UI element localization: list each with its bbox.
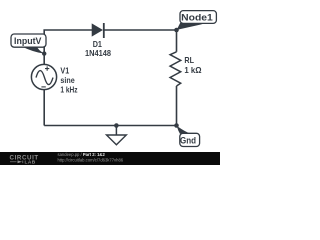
svg-text:LAB: LAB bbox=[25, 160, 36, 165]
label V1 sine 1 kHz bbox=[60, 65, 77, 94]
node Node1 flag bbox=[177, 11, 217, 30]
junction dot at Node1 corner bbox=[174, 28, 179, 33]
node InputV flag bbox=[11, 34, 46, 56]
node Gnd flag bbox=[177, 126, 200, 147]
wire right rail upper: Node1 corner to resistor top bbox=[176, 30, 178, 52]
svg-text:sandeep.pp / Part 2: 1&2: sandeep.pp / Part 2: 1&2 bbox=[58, 152, 106, 157]
svg-text:V1: V1 bbox=[60, 65, 69, 75]
wire top-left: from InputV rail corner to diode anode bbox=[44, 30, 92, 65]
junction dot at ground tap bbox=[114, 123, 119, 128]
svg-text:sine: sine bbox=[60, 75, 75, 85]
wire left rail lower: source bottom to bottom-left corner bbox=[43, 90, 45, 126]
svg-text:RL: RL bbox=[184, 55, 194, 65]
svg-text:http://circuitlab.com/c/7d63k7: http://circuitlab.com/c/7d63k77vh86 bbox=[58, 158, 124, 163]
voltage source V1 (sine) bbox=[31, 64, 56, 89]
svg-text:Node1: Node1 bbox=[181, 12, 213, 23]
watermark footer bar bbox=[0, 152, 220, 166]
label D1 value 1N4148 bbox=[85, 39, 111, 58]
svg-text:Gnd: Gnd bbox=[180, 134, 196, 145]
wire top-right: diode cathode to Node1 corner bbox=[105, 29, 177, 31]
svg-text:1N4148: 1N4148 bbox=[85, 48, 111, 58]
wire bottom: bottom-left corner to Gnd corner bbox=[44, 125, 176, 127]
ground bbox=[107, 126, 127, 145]
svg-text:1 kΩ: 1 kΩ bbox=[184, 65, 201, 75]
wire right rail lower: resistor bottom to Gnd corner bbox=[176, 86, 178, 126]
diode D1 bbox=[92, 23, 104, 38]
label RL value 1 kOhm bbox=[184, 55, 201, 75]
resistor RL bbox=[170, 52, 181, 86]
svg-text:1 kHz: 1 kHz bbox=[60, 85, 77, 95]
svg-text:InputV: InputV bbox=[14, 35, 42, 46]
junction dot at Gnd corner bbox=[174, 123, 179, 128]
